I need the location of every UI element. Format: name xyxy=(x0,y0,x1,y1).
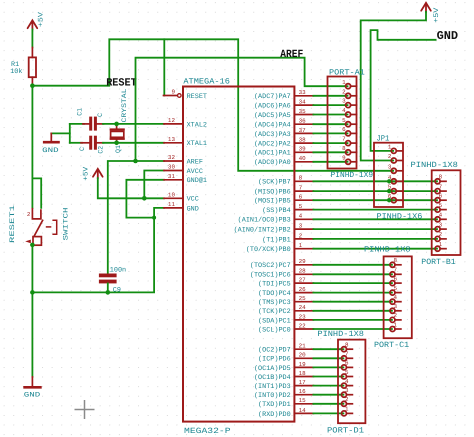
svg-text:15: 15 xyxy=(299,397,307,404)
svg-text:32: 32 xyxy=(168,154,176,161)
wire RESET net: R1 junction up-right to chip and JP1 xyxy=(32,39,392,171)
svg-text:16: 16 xyxy=(299,388,307,395)
junction JP1 pin 4 (SCK) xyxy=(387,179,391,183)
junction R1/RESET xyxy=(30,83,35,88)
svg-text:24: 24 xyxy=(299,304,307,311)
svg-text:Q1: Q1 xyxy=(115,145,123,153)
JP1 pin 5 xyxy=(391,190,393,192)
wire VCC net xyxy=(98,178,164,198)
svg-text:33: 33 xyxy=(299,89,307,96)
svg-text:3: 3 xyxy=(439,221,443,228)
svg-text:1: 1 xyxy=(345,406,349,413)
svg-text:30: 30 xyxy=(168,164,176,171)
pin 32 AREF xyxy=(164,160,183,162)
junction GND jog xyxy=(152,216,156,220)
resistor R1 xyxy=(31,48,33,58)
pin 8 (SCK)PB7 xyxy=(294,180,313,182)
wire GND rail xyxy=(32,208,164,293)
svg-text:+5V: +5V xyxy=(83,166,91,181)
svg-text:5: 5 xyxy=(394,285,398,292)
svg-text:(OC1B)PD4: (OC1B)PD4 xyxy=(254,374,291,382)
PORT-C1 pin 2 xyxy=(390,319,392,321)
pin 13 XTAL1 xyxy=(164,142,183,144)
svg-text:ATMEGA-16: ATMEGA-16 xyxy=(183,78,230,87)
crystal Q1 xyxy=(116,124,118,128)
svg-text:31: 31 xyxy=(168,173,176,180)
svg-text:40: 40 xyxy=(299,155,307,162)
PORT-B1 pin 4 xyxy=(435,218,437,220)
svg-text:(TMS)PC3: (TMS)PC3 xyxy=(258,299,291,307)
+5V supply symbol (top right) xyxy=(421,3,431,13)
svg-text:(ADC0)PA0: (ADC0)PA0 xyxy=(254,159,291,167)
PORT-A1 pin 8 xyxy=(346,151,348,153)
svg-text:(SS)PB4: (SS)PB4 xyxy=(262,207,291,215)
svg-text:1: 1 xyxy=(439,241,443,248)
svg-text:PINHD-1X8: PINHD-1X8 xyxy=(317,330,364,339)
wire cap common node xyxy=(69,124,71,143)
svg-text:(ADC7)PA7: (ADC7)PA7 xyxy=(254,93,291,101)
pin 24 (TCK)PC2 xyxy=(294,310,313,312)
svg-text:13: 13 xyxy=(168,136,176,143)
svg-text:(AIN0/INT2)PB2: (AIN0/INT2)PB2 xyxy=(234,227,291,235)
connector PORT-D1 (PINHD-1X8) xyxy=(338,340,365,424)
switch RESET1 (SWITCH) xyxy=(32,208,56,245)
svg-text:1: 1 xyxy=(394,321,398,328)
wire AREF net xyxy=(136,58,346,161)
svg-text:6: 6 xyxy=(345,360,349,367)
pin 36 (ADC4)PA4 xyxy=(294,123,313,125)
svg-text:(TOSC2)PC7: (TOSC2)PC7 xyxy=(250,262,291,270)
svg-text:8: 8 xyxy=(299,175,303,182)
svg-text:(ADC4)PA4: (ADC4)PA4 xyxy=(254,122,291,130)
svg-text:9: 9 xyxy=(342,154,346,161)
wire +5V to JP1 pin 2 xyxy=(361,12,426,161)
svg-text:AREF: AREF xyxy=(280,49,303,61)
wire GND to JP1 pin 1 xyxy=(371,30,436,151)
pin 23 (SDA)PC1 xyxy=(294,319,313,321)
PORT-B1 pin 8 xyxy=(435,180,437,182)
PORT-C1 pin 1 xyxy=(390,328,392,330)
ground symbol GND (crystal) xyxy=(51,132,70,134)
junction crystal top xyxy=(114,122,119,127)
svg-text:C9: C9 xyxy=(113,287,121,295)
svg-text:34: 34 xyxy=(299,99,307,106)
svg-text:6: 6 xyxy=(299,194,303,201)
wire XTAL2 net xyxy=(103,123,164,125)
svg-text:PORT-A1: PORT-A1 xyxy=(329,68,365,77)
junction C9-GND rail xyxy=(106,290,111,295)
wire GND jog to GND@1 pin xyxy=(126,180,164,218)
svg-text:PORT-D1: PORT-D1 xyxy=(327,427,364,436)
svg-text:35: 35 xyxy=(299,108,307,115)
capacitor C9 xyxy=(99,274,117,278)
svg-text:7: 7 xyxy=(394,267,398,274)
svg-text:5: 5 xyxy=(342,117,346,124)
PORT-C1 pin 3 xyxy=(390,310,392,312)
svg-text:(AIN1/OC0)PB3: (AIN1/OC0)PB3 xyxy=(238,217,291,225)
pin 33 (ADC7)PA7 xyxy=(294,95,313,97)
svg-text:+5V: +5V xyxy=(433,7,441,23)
svg-text:4: 4 xyxy=(345,378,349,385)
wire XTAL1 net xyxy=(103,142,164,144)
svg-text:8: 8 xyxy=(345,342,349,349)
pin 30 AVCC xyxy=(164,170,183,172)
pin 15 (TXD)PD1 xyxy=(294,403,313,405)
svg-text:6: 6 xyxy=(342,126,346,133)
JP1 pin 3 xyxy=(391,170,393,172)
svg-text:PINHD-1X8: PINHD-1X8 xyxy=(364,246,411,255)
junction crystal bottom xyxy=(114,141,119,146)
pin 3 (AIN0/INT2)PB2 xyxy=(294,228,313,230)
pin 19 (OC1A)PD5 xyxy=(294,366,313,368)
switch pin 1 marker xyxy=(25,240,31,244)
pin 35 (ADC5)PA5 xyxy=(294,114,313,116)
PORT-A1 pin 9 xyxy=(346,161,348,163)
svg-text:17: 17 xyxy=(299,379,307,386)
pin 7 (MISO)PB6 xyxy=(294,190,313,192)
PORT-D1 pin 6 xyxy=(341,366,343,368)
PORT-B1 pin 1 xyxy=(435,248,437,250)
wires PA7-PA0 to PORT-A1 xyxy=(313,95,345,97)
pin 16 (INT0)PD2 xyxy=(294,394,313,396)
PORT-C1 pin 6 xyxy=(390,282,392,284)
pin 9 RESET xyxy=(164,95,178,97)
pin 28 (TOSC1)PC6 xyxy=(294,273,313,275)
svg-text:RESET: RESET xyxy=(187,93,207,101)
PORT-D1 pin 3 xyxy=(341,394,343,396)
svg-text:(TDO)PC4: (TDO)PC4 xyxy=(258,290,291,298)
svg-text:6: 6 xyxy=(394,275,398,282)
svg-text:10k: 10k xyxy=(10,68,22,76)
PORT-A1 pin 3 xyxy=(346,104,348,106)
JP1 pin 6 xyxy=(391,199,393,201)
svg-text:C2: C2 xyxy=(98,146,106,154)
svg-text:8: 8 xyxy=(439,174,443,181)
capacitor C1 xyxy=(83,123,89,125)
svg-text:6: 6 xyxy=(439,193,443,200)
svg-text:(TDI)PC5: (TDI)PC5 xyxy=(258,281,291,289)
pin 2 (T1)PB1 xyxy=(294,238,313,240)
pin 34 (ADC6)PA6 xyxy=(294,104,313,106)
+5V supply symbol (middle) xyxy=(93,169,103,179)
capacitor C2 xyxy=(81,142,89,144)
svg-text:27: 27 xyxy=(299,277,307,284)
PORT-D1 pin 7 xyxy=(341,357,343,359)
svg-text:PORT-B1: PORT-B1 xyxy=(421,258,456,267)
PORT-A1 pin 5 xyxy=(346,123,348,125)
svg-text:23: 23 xyxy=(299,313,307,320)
svg-text:7: 7 xyxy=(345,351,349,358)
svg-text:(ADC2)PA2: (ADC2)PA2 xyxy=(254,141,291,149)
svg-text:GND: GND xyxy=(42,147,59,155)
svg-text:26: 26 xyxy=(299,286,307,293)
svg-text:(ADC3)PA3: (ADC3)PA3 xyxy=(254,131,291,139)
svg-text:+5V: +5V xyxy=(37,11,45,27)
svg-text:(TXD)PD1: (TXD)PD1 xyxy=(258,401,291,409)
wires PC7-PC0 to PORT-C1 xyxy=(313,264,390,266)
pin 29 (TOSC2)PC7 xyxy=(294,264,313,266)
PORT-D1 pin 1 xyxy=(341,412,343,414)
svg-text:5: 5 xyxy=(439,202,443,209)
svg-text:14: 14 xyxy=(299,407,307,414)
svg-text:3: 3 xyxy=(342,98,346,105)
pin 5 (SS)PB4 xyxy=(294,209,313,211)
svg-text:12: 12 xyxy=(168,117,176,124)
svg-text:8: 8 xyxy=(394,257,398,264)
svg-text:19: 19 xyxy=(299,361,307,368)
svg-text:3: 3 xyxy=(345,387,349,394)
PORT-D1 pin 8 xyxy=(341,348,343,350)
svg-text:2: 2 xyxy=(394,312,398,319)
svg-text:1: 1 xyxy=(299,242,303,249)
svg-text:XTAL1: XTAL1 xyxy=(187,140,207,148)
PORT-A1 pin 2 xyxy=(346,95,348,97)
JP1 pin 4 xyxy=(391,180,393,182)
wire AVCC branch xyxy=(144,171,164,199)
svg-text:39: 39 xyxy=(299,146,307,153)
svg-text:1: 1 xyxy=(342,79,346,86)
svg-text:(ICP)PD6: (ICP)PD6 xyxy=(258,356,291,364)
junction JP1 pin 5 (MISO) xyxy=(387,189,391,193)
svg-text:4: 4 xyxy=(299,213,303,220)
svg-text:CRYSTAL: CRYSTAL xyxy=(121,89,129,123)
pin 14 (RXD)PD0 xyxy=(294,412,313,414)
PORT-B1 pin 2 xyxy=(435,238,437,240)
PORT-B1 pin 7 xyxy=(435,190,437,192)
svg-text:(TOSC1)PC6: (TOSC1)PC6 xyxy=(250,272,291,280)
svg-text:3: 3 xyxy=(394,303,398,310)
svg-text:(OC1A)PD5: (OC1A)PD5 xyxy=(254,365,291,373)
svg-text:29: 29 xyxy=(299,258,307,265)
svg-text:C: C xyxy=(79,147,87,151)
svg-text:5: 5 xyxy=(345,369,349,376)
svg-text:JP1: JP1 xyxy=(377,134,390,143)
svg-text:20: 20 xyxy=(299,352,307,359)
svg-text:GND@1: GND@1 xyxy=(187,177,207,185)
pin 18 (OC1B)PD4 xyxy=(294,376,313,378)
svg-text:(T1)PB1: (T1)PB1 xyxy=(262,236,291,244)
+5V supply symbol (top left) xyxy=(28,20,38,30)
JP1 pin 1 xyxy=(391,150,393,152)
svg-text:7: 7 xyxy=(342,136,346,143)
JP1 pin 2 xyxy=(391,160,393,162)
connector PORT-A1 (PINHD-1X9) xyxy=(328,77,357,169)
pin 1 (T0/XCK)PB0 xyxy=(294,248,313,250)
wire switch to GND rail xyxy=(31,245,33,377)
PORT-A1 pin 6 xyxy=(346,132,348,134)
svg-text:7: 7 xyxy=(439,183,443,190)
wire RESET to switch (jog) xyxy=(31,86,33,208)
svg-text:28: 28 xyxy=(299,268,307,275)
svg-text:7: 7 xyxy=(299,185,303,192)
pin 37 (ADC3)PA3 xyxy=(294,132,313,134)
junction AVCC/VCC xyxy=(142,196,147,201)
pin 4 (AIN1/OC0)PB3 xyxy=(294,218,313,220)
pin 40 (ADC0)PA0 xyxy=(294,161,313,163)
pin 17 (INT1)PD3 xyxy=(294,385,313,387)
pin 27 (TDI)PC5 xyxy=(294,282,313,284)
svg-text:(INT1)PD3: (INT1)PD3 xyxy=(254,383,291,391)
svg-text:4: 4 xyxy=(342,107,346,114)
svg-text:(ADC5)PA5: (ADC5)PA5 xyxy=(254,112,291,120)
IC U1 ATMEGA-16 body xyxy=(183,87,294,422)
svg-text:22: 22 xyxy=(299,322,307,329)
pin 39 (ADC1)PA1 xyxy=(294,151,313,153)
svg-text:(OC2)PD7: (OC2)PD7 xyxy=(258,347,291,355)
junction GND rail left xyxy=(30,290,35,295)
svg-text:(ADC6)PA6: (ADC6)PA6 xyxy=(254,103,291,111)
PORT-C1 pin 8 xyxy=(390,264,392,266)
svg-text:GND: GND xyxy=(437,29,459,43)
pin 38 (ADC2)PA2 xyxy=(294,142,313,144)
PORT-B1 pin 6 xyxy=(435,199,437,201)
junction AREF xyxy=(133,159,138,164)
svg-text:PINHD-1X9: PINHD-1X9 xyxy=(331,171,374,180)
svg-text:9: 9 xyxy=(171,89,175,96)
svg-text:(INT0)PD2: (INT0)PD2 xyxy=(254,392,291,400)
svg-text:C1: C1 xyxy=(77,108,85,116)
PORT-A1 pin 7 xyxy=(346,142,348,144)
svg-text:(ADC1)PA1: (ADC1)PA1 xyxy=(254,150,291,158)
svg-text:100n: 100n xyxy=(110,267,126,275)
svg-text:2: 2 xyxy=(342,88,346,95)
connector JP1 (PINHD-1X6) xyxy=(374,143,403,207)
svg-text:38: 38 xyxy=(299,137,307,144)
pin 21 (OC2)PD7 xyxy=(294,348,313,350)
pin 6 (MOSI)PB5 xyxy=(294,199,313,201)
PORT-A1 pin 4 xyxy=(346,114,348,116)
svg-text:(SCL)PC0: (SCL)PC0 xyxy=(258,326,291,334)
svg-text:GND: GND xyxy=(187,205,199,213)
svg-text:8: 8 xyxy=(342,145,346,152)
svg-text:(SDA)PC1: (SDA)PC1 xyxy=(258,317,291,325)
svg-text:21: 21 xyxy=(299,343,307,350)
svg-text:SWITCH: SWITCH xyxy=(62,208,70,241)
junction switch-GND xyxy=(30,243,35,248)
svg-text:MEGA32-P: MEGA32-P xyxy=(184,427,231,436)
wire +5V to R1 xyxy=(31,30,33,48)
svg-text:C: C xyxy=(97,113,105,117)
PORT-B1 pin 3 xyxy=(435,228,437,230)
svg-text:2: 2 xyxy=(299,232,303,239)
svg-text:AVCC: AVCC xyxy=(187,168,203,176)
wire RESET branch to chip pin 9 xyxy=(163,39,165,95)
PORT-A1 pin 1 xyxy=(346,85,348,87)
svg-text:(SCK)PB7: (SCK)PB7 xyxy=(258,179,291,187)
svg-text:18: 18 xyxy=(299,370,307,377)
junction JP1 pin 6 (MOSI) xyxy=(387,198,391,202)
svg-text:3: 3 xyxy=(388,163,392,170)
pin 25 (TMS)PC3 xyxy=(294,301,313,303)
ground symbol GND (bottom left) xyxy=(31,377,33,386)
origin cross marker xyxy=(75,400,95,419)
pin 22 (SCL)PC0 xyxy=(294,328,313,330)
svg-text:XTAL2: XTAL2 xyxy=(187,121,207,129)
svg-text:RESET: RESET xyxy=(106,77,137,89)
PORT-D1 pin 2 xyxy=(341,403,343,405)
pin 12 XTAL2 xyxy=(164,123,183,125)
pin 26 (TDO)PC4 xyxy=(294,292,313,294)
svg-text:(RXD)PD0: (RXD)PD0 xyxy=(258,411,291,419)
svg-text:PINHD-1X6: PINHD-1X6 xyxy=(377,213,423,222)
connector PORT-B1 (PINHD-1X8) xyxy=(432,170,461,255)
svg-text:36: 36 xyxy=(299,118,307,125)
svg-text:3: 3 xyxy=(299,223,303,230)
wires PB7-PB0 to PORT-B1 xyxy=(313,180,435,182)
wires PD7-PD0 to PORT-D1 xyxy=(313,348,341,350)
svg-text:AREF: AREF xyxy=(187,158,203,166)
svg-text:(MISO)PB6: (MISO)PB6 xyxy=(254,189,291,197)
PORT-C1 pin 5 xyxy=(390,292,392,294)
svg-text:2: 2 xyxy=(345,396,349,403)
svg-text:VCC: VCC xyxy=(187,196,199,204)
PORT-D1 pin 5 xyxy=(341,376,343,378)
svg-text:4: 4 xyxy=(394,294,398,301)
svg-text:2: 2 xyxy=(27,211,31,218)
svg-text:(T0/XCK)PB0: (T0/XCK)PB0 xyxy=(246,246,291,254)
pin 31 GND@1 xyxy=(164,179,183,181)
svg-text:PORT-C1: PORT-C1 xyxy=(374,341,409,350)
svg-text:(MOSI)PB5: (MOSI)PB5 xyxy=(254,198,291,206)
svg-text:PINHD-1X8: PINHD-1X8 xyxy=(411,161,459,170)
svg-text:11: 11 xyxy=(168,201,176,208)
pin 10 VCC xyxy=(164,197,183,199)
pin 11 GND xyxy=(164,207,183,209)
svg-text:1: 1 xyxy=(388,144,392,151)
svg-text:GND: GND xyxy=(24,391,41,399)
svg-text:2: 2 xyxy=(439,231,443,238)
PORT-D1 pin 4 xyxy=(341,385,343,387)
svg-text:5: 5 xyxy=(299,203,303,210)
PORT-C1 pin 4 xyxy=(390,301,392,303)
svg-text:(TCK)PC2: (TCK)PC2 xyxy=(258,308,291,316)
connector PORT-C1 (PINHD-1X8) xyxy=(384,256,412,338)
PORT-B1 pin 5 xyxy=(435,209,437,211)
svg-text:RESET1: RESET1 xyxy=(9,205,17,243)
svg-text:37: 37 xyxy=(299,127,307,134)
PORT-C1 pin 7 xyxy=(390,273,392,275)
svg-text:10: 10 xyxy=(168,192,176,199)
svg-text:2: 2 xyxy=(388,153,392,160)
pin 20 (ICP)PD6 xyxy=(294,357,313,359)
svg-text:25: 25 xyxy=(299,295,307,302)
svg-text:4: 4 xyxy=(439,212,443,219)
